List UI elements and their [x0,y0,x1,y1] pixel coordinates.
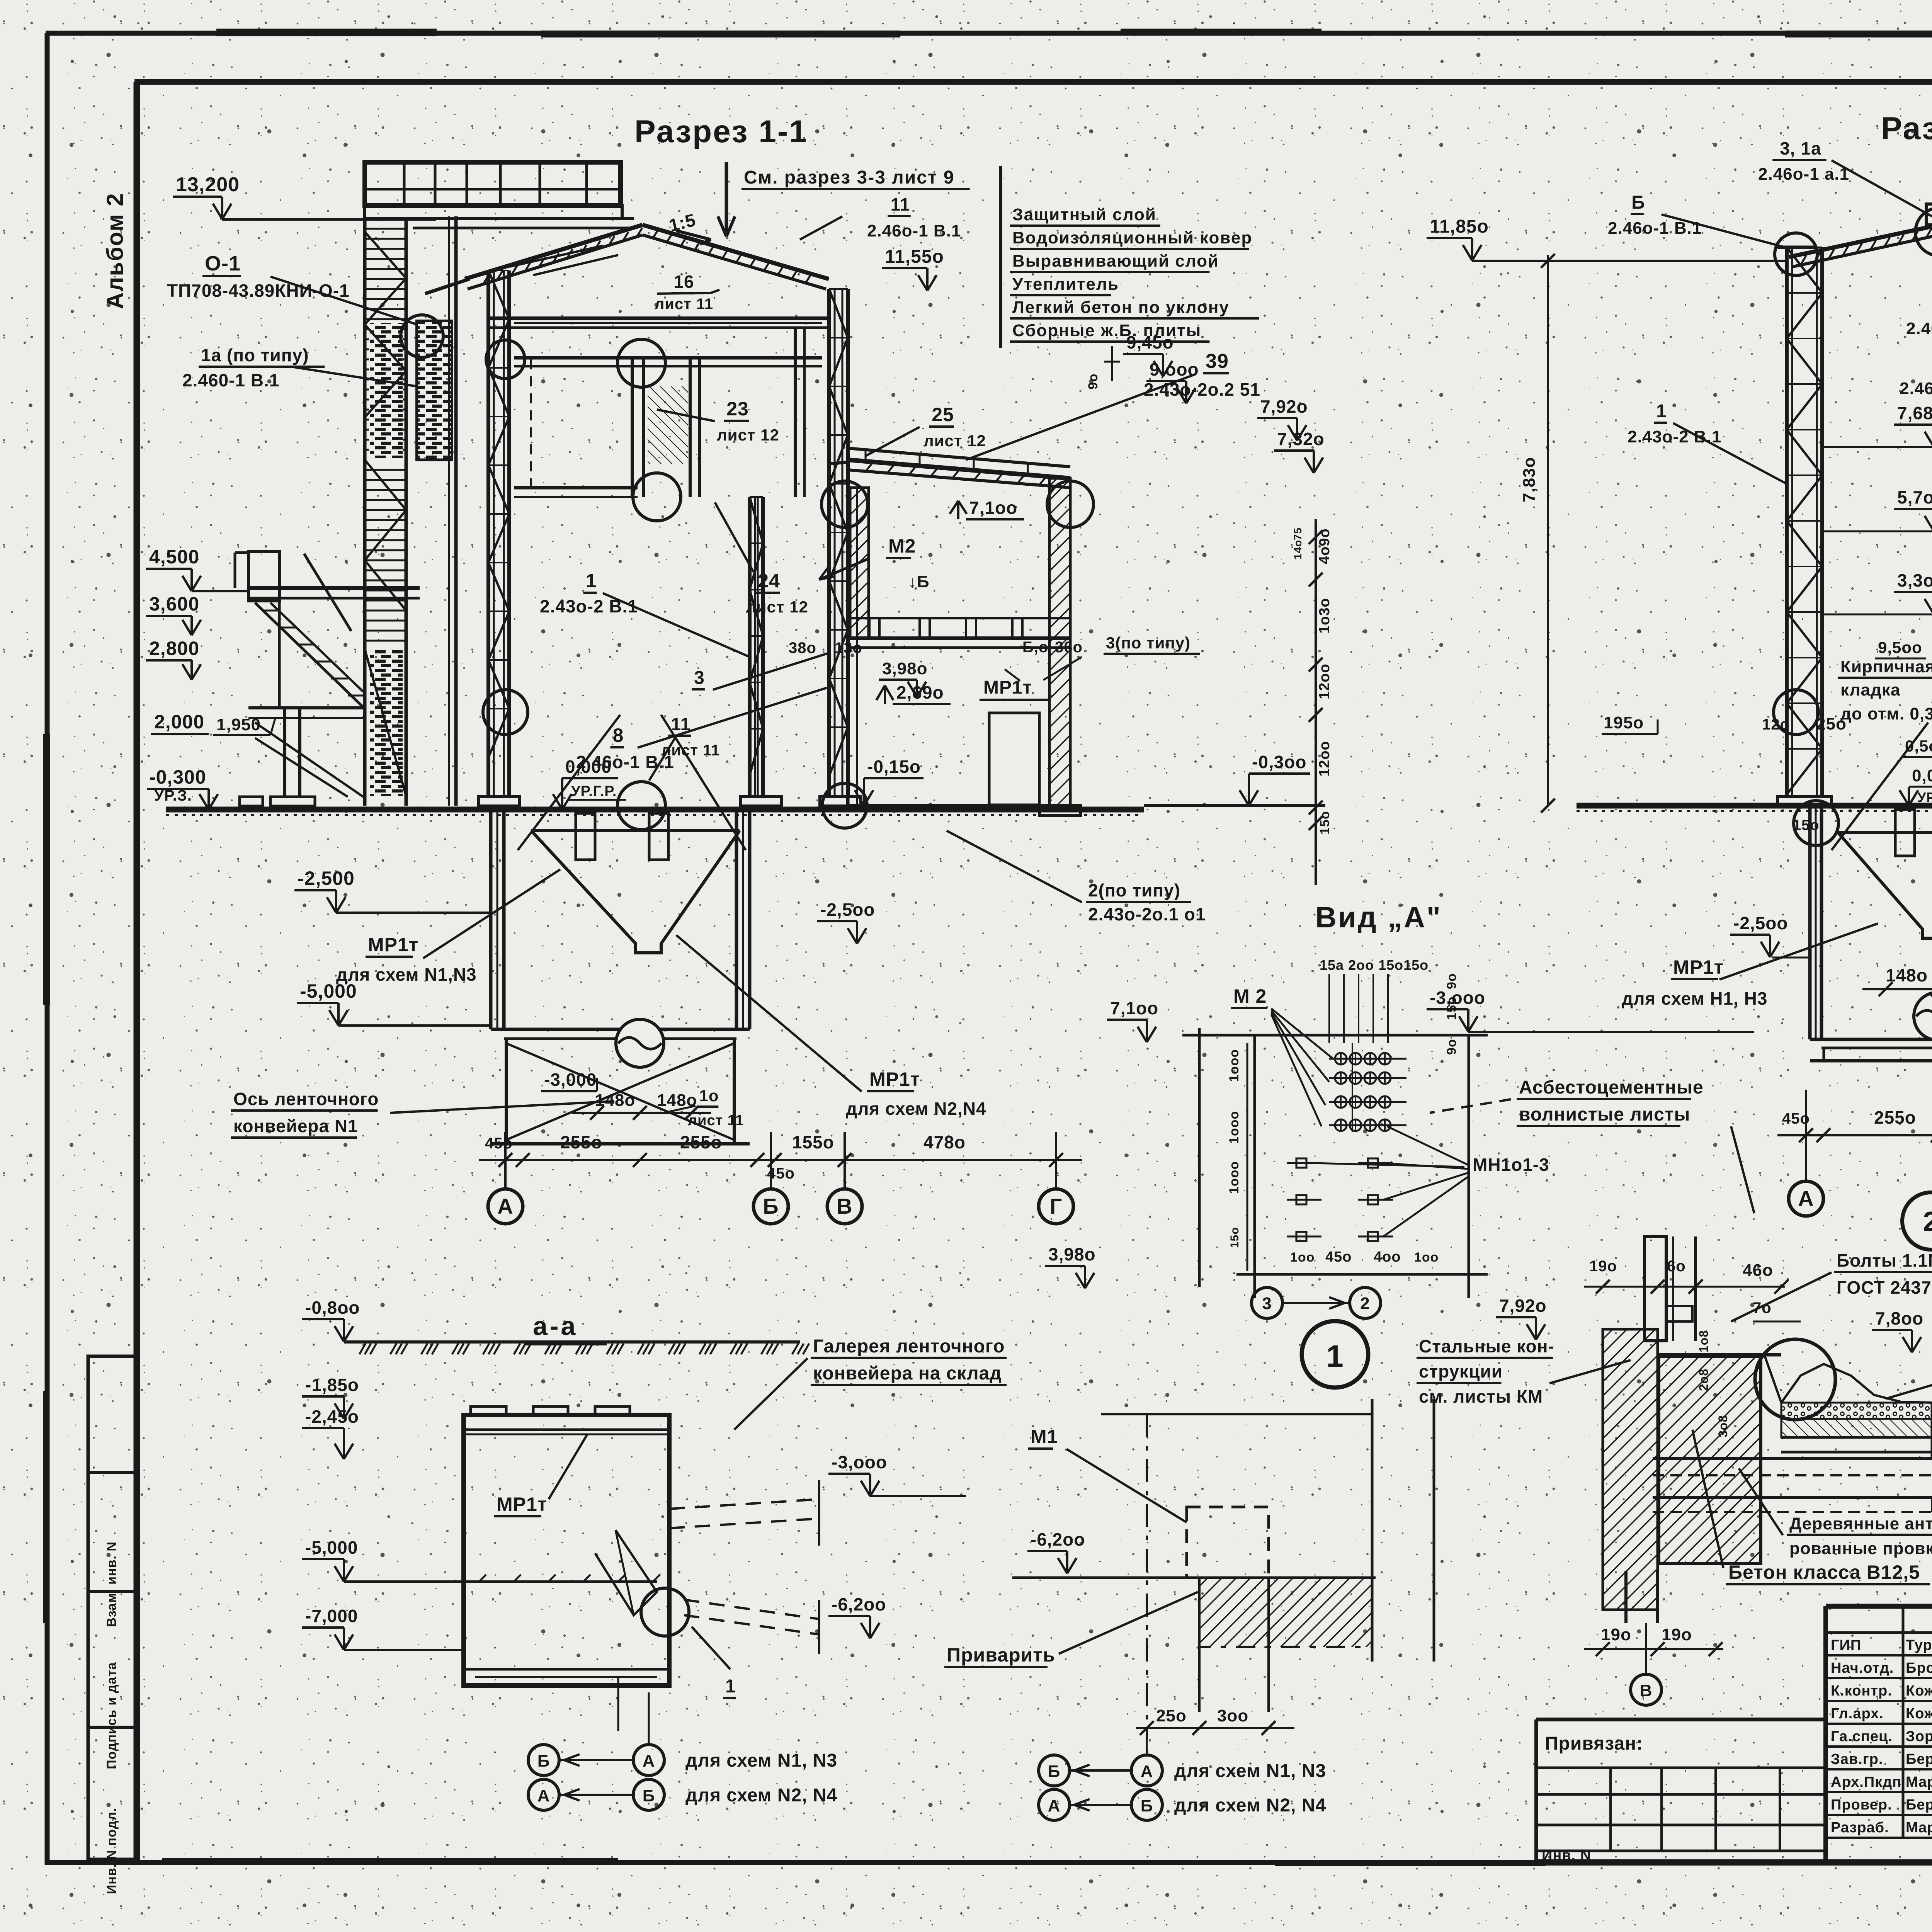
svg-text:К.контр.: К.контр. [1831,1683,1892,1699]
privyazan table left [1536,1733,1826,1864]
level 2,690 MR1t annex [876,669,1049,704]
svg-text:9,5оо: 9,5оо [1878,638,1922,656]
svg-text:478о: 478о [923,1132,966,1152]
svg-text:конвейера на склад: конвейера на склад [813,1363,1002,1384]
svg-text:для схем N1, N3: для схем N1, N3 [1174,1761,1326,1781]
svg-text:для схем N2,N4: для схем N2,N4 [846,1099,986,1119]
svg-text:13о: 13о [835,639,862,656]
svg-text:Деревянные антисепти-: Деревянные антисепти- [1789,1514,1932,1533]
stair tower left [365,219,406,806]
svg-text:39: 39 [1206,350,1229,372]
svg-text:Инв. N: Инв. N [1542,1847,1591,1864]
svg-text:Зав.гр.: Зав.гр. [1831,1751,1883,1767]
svg-text:7,83о: 7,83о [1520,457,1539,502]
svg-text:1: 1 [1656,401,1667,422]
callout M2 with arrow [819,535,930,591]
svg-text:2.46о-1 В.1: 2.46о-1 В.1 [1900,379,1932,398]
svg-text:-1,85о: -1,85о [305,1375,359,1395]
svg-text:3,3оо: 3,3оо [1897,570,1932,590]
level -3,000 right of view A [1427,988,1754,1032]
axes and dim row section 2 [1777,1090,1932,1216]
svg-text:7,68о: 7,68о [1897,403,1932,423]
svg-text:2: 2 [1360,1294,1370,1313]
svg-text:45о: 45о [767,1165,795,1182]
callout 2 po tipu lower right [947,831,1206,924]
svg-text:1: 1 [1326,1339,1344,1373]
svg-text:О-1: О-1 [205,252,241,275]
svg-text:-0,15о: -0,15о [867,757,921,777]
svg-text:1ооо: 1ооо [1227,1049,1242,1082]
level -2,500 pit right [817,900,875,944]
svg-text:-0,3оо: -0,3оо [1252,752,1306,772]
svg-text:Болты 1.1М12×3оо ВСТ3пс2: Болты 1.1М12×3оо ВСТ3пс2 [1837,1250,1932,1270]
ground line section 1 [166,810,1144,815]
callout 3 [692,653,829,690]
a-a right levels [828,1452,966,1638]
svg-text:М1: М1 [1031,1426,1058,1447]
steel structures label [1417,1336,1631,1406]
svg-text:Кожевников: Кожевников [1906,1706,1932,1722]
svg-text:А: А [1048,1796,1061,1815]
levels 7,680 5,700 3,300 inside hall [1822,403,1932,614]
callout 11 2.460-1 V.1 with 11,550 [800,194,961,291]
section 2-2 title [1881,111,1932,146]
svg-text:МР1т: МР1т [497,1493,547,1515]
svg-text:Приварить: Приварить [947,1644,1055,1666]
callout 39 right section1 [966,350,1260,460]
svg-text:2,800: 2,800 [149,638,199,659]
left lattice column section 2 [1777,247,1832,806]
roof layers list [1001,166,1259,348]
svg-text:лист 12: лист 12 [717,426,779,444]
level -3,000 and hopper dims 1480 1480 [541,1070,711,1120]
levels 7,920 7,320 right [1257,396,1325,473]
svg-text:2,000: 2,000 [154,711,204,733]
svg-text:Зорин: Зорин [1906,1728,1932,1745]
svg-text:Га.спец.: Га.спец. [1831,1728,1893,1745]
svg-text:2.460-1 В.1: 2.460-1 В.1 [182,370,279,390]
svg-text:Марголина: Марголина [1906,1774,1932,1790]
left elevation marks column section 1 [146,173,489,1026]
detail a-a title [526,1311,607,1344]
scheme direction symbols under a-a [528,1692,837,1810]
svg-text:-2,5оо: -2,5оо [820,900,875,920]
callout 8 2.460-1 V.1 [576,688,827,772]
svg-text:7,1оо: 7,1оо [1110,998,1158,1018]
svg-text:45о: 45о [1325,1249,1352,1265]
svg-text:Разрез 1-1: Разрез 1-1 [634,114,808,149]
callout 2 2.460-1 V.1 ridge [1906,240,1932,338]
svg-text:7,1оо: 7,1оо [969,498,1017,518]
node circles section 2 [1774,208,1932,845]
svg-text:Инв. N подл.: Инв. N подл. [104,1808,119,1894]
svg-text:УР.Г.Р.: УР.Г.Р. [571,783,617,799]
svg-text:11,55о: 11,55о [885,247,944,267]
svg-text:155о: 155о [792,1132,834,1152]
svg-text:См. разрез 3-3 лист 9: См. разрез 3-3 лист 9 [744,167,954,188]
svg-text:для схем N1,N3: для схем N1,N3 [336,964,477,985]
levels 9,450 9,000 right of hall [1086,332,1199,403]
svg-text:0,5оо: 0,5оо [1905,737,1932,755]
svg-text:Туринский: Туринский [1906,1637,1932,1653]
svg-text:2.46о-1 а.1: 2.46о-1 а.1 [1758,165,1849,184]
svg-text:-5,000: -5,000 [305,1537,358,1558]
callout 1a po tipu [182,345,417,390]
svg-text:конвейера N1: конвейера N1 [233,1116,358,1136]
svg-text:Взам. инв. N: Взам. инв. N [104,1541,119,1627]
foundation pit section 2 [1810,723,1932,1061]
svg-text:А: А [1798,1186,1814,1211]
svg-text:Б: Б [537,1752,550,1770]
svg-text:1ооо: 1ооо [1227,1161,1242,1194]
svg-text:2о8: 2о8 [1697,1369,1711,1391]
gallery to warehouse label [734,1336,1007,1430]
svg-text:19о: 19о [1662,1625,1692,1644]
svg-text:1: 1 [725,1676,736,1697]
svg-text:11: 11 [671,714,691,734]
callout 25 list 12 [866,404,986,456]
roof gable section 2 [1777,204,1932,280]
left stamp column [88,1356,138,1894]
svg-text:ГОСТ 24379.о-8о; 1-8о: ГОСТ 24379.о-8о; 1-8о [1837,1277,1932,1298]
svg-text:148о: 148о [595,1091,635,1110]
svg-text:1ооо: 1ооо [1227,1111,1242,1144]
svg-text:13,200: 13,200 [176,173,240,196]
svg-text:ТП708-43.89КНИ-О-1: ТП708-43.89КНИ-О-1 [167,281,350,301]
svg-text:3о8: 3о8 [1716,1415,1730,1437]
svg-text:16: 16 [673,272,694,292]
svg-text:Берлин: Берлин [1906,1797,1932,1813]
svg-text:лист 12: лист 12 [746,598,808,616]
a-a node 1 leader [618,1627,736,1731]
svg-text:7,92о: 7,92о [1260,396,1308,417]
view A detail [1045,901,1549,1318]
level 0,000 UR.G.R [553,757,626,810]
svg-text:Альбом 2: Альбом 2 [102,192,128,309]
hall left lattice column A [478,270,519,806]
svg-text:МР1т: МР1т [1673,956,1724,978]
svg-text:15о: 15о [1318,811,1332,835]
node circles section 1 [401,315,1094,830]
svg-text:МР1т: МР1т [368,934,418,956]
level -0,300 far right of section1 [1144,752,1325,806]
level -2,500 marks section 2 [1730,869,1932,957]
svg-text:Б: Б [1048,1762,1061,1781]
svg-text:255о: 255о [680,1132,722,1152]
svg-text:9о: 9о [1444,973,1459,989]
svg-text:38о: 38о [789,639,816,656]
left vertical dim 7,830 [1520,254,1555,813]
labels around pit section 2 [1602,657,1932,833]
svg-text:6о: 6о [1667,1258,1686,1275]
svg-text:Б: Б [1631,192,1645,213]
svg-text:3(по типу): 3(по типу) [1106,634,1190,652]
svg-text:Легкий бетон по уклону: Легкий бетон по уклону [1012,298,1230,317]
level -0,150 annex [855,757,923,806]
callout 1a 2.460-1 V.1 [1900,294,1932,398]
svg-text:45о: 45о [1782,1110,1810,1127]
svg-text:лист 11: лист 11 [655,296,713,313]
svg-text:Кирпичная я: Кирпичная я [1840,657,1932,676]
svg-text:7,92о: 7,92о [1499,1296,1547,1316]
level 11,850 left [1427,216,1785,261]
svg-text:1оо: 1оо [1290,1250,1315,1265]
svg-text:Б: Б [763,1194,779,1218]
svg-text:1: 1 [586,570,597,592]
svg-text:МР1т: МР1т [869,1068,920,1090]
svg-text:45о: 45о [485,1135,513,1152]
svg-text:Утеплитель: Утеплитель [1012,275,1119,294]
svg-text:1о8: 1о8 [1697,1330,1711,1352]
callout 24 list 12 [715,502,808,616]
svg-text:255о: 255о [560,1132,602,1152]
svg-text:-7,000: -7,000 [305,1606,358,1626]
svg-text:Привязан:: Привязан: [1545,1733,1643,1754]
annex right wall G (brick hatch) [1039,478,1080,816]
svg-text:В: В [837,1194,852,1218]
svg-text:Подпись и дата: Подпись и дата [104,1662,119,1769]
svg-text:МН1о1-3: МН1о1-3 [1473,1155,1549,1175]
callout 1 2.430-2 V.1 [540,570,750,657]
svg-text:2.46о-1 В.1: 2.46о-1 В.1 [1906,319,1932,338]
svg-text:Провер.: Провер. [1831,1797,1892,1813]
callout B 2.460-1 V.1 [1608,192,1785,247]
label MR1t for schemes N2 N4 [676,935,986,1119]
svg-text:3оо: 3оо [1217,1706,1248,1725]
callout 11 list 11 [649,714,720,781]
svg-text:4о9о: 4о9о [1316,528,1333,564]
svg-text:0,000: 0,000 [565,757,612,777]
dims 380 130 and 3,980 mid [789,634,1200,697]
svg-text:46о: 46о [1743,1261,1773,1280]
svg-text:А: А [497,1194,513,1218]
svg-text:-3,000: -3,000 [544,1070,597,1090]
svg-text:1о: 1о [699,1087,719,1105]
svg-text:-6,2оо: -6,2оо [832,1594,886,1614]
svg-text:3, 1а: 3, 1а [1780,138,1821,158]
svg-text:Асбестоцементные: Асбестоцементные [1519,1077,1704,1098]
callout O-1 [167,252,417,325]
svg-text:2.46о-1 В.1: 2.46о-1 В.1 [867,221,961,240]
svg-text:14о: 14о [1292,540,1304,560]
svg-text:15о: 15о [1793,817,1819,833]
svg-text:для схем N1, N3: для схем N1, N3 [685,1750,837,1771]
MR1t for schemes H1 H3 [1622,923,1878,1009]
svg-text:лист 11: лист 11 [688,1112,744,1129]
svg-text:↓Б: ↓Б [908,572,930,591]
svg-text:19о: 19о [1589,1258,1617,1275]
a-a tank structure [464,1406,819,1685]
svg-text:см. листы КМ: см. листы КМ [1419,1386,1543,1406]
svg-text:15а 2оо 15о15о: 15а 2оо 15о15о [1320,957,1429,973]
svg-text:рованные провки 6о×6о×8о: рованные провки 6о×6о×8о [1789,1539,1932,1558]
svg-text:Ось ленточного: Ось ленточного [233,1089,379,1109]
big detail circle 1 [1302,1321,1368,1388]
svg-text:УР.Г.Р.: УР.Г.Р. [1917,789,1932,805]
svg-text:7,8оо: 7,8оо [1875,1308,1923,1328]
a-a MR1t label [494,1434,587,1516]
svg-text:М2: М2 [888,535,916,557]
svg-text:2.43о-2о.2 51: 2.43о-2о.2 51 [1144,379,1260,400]
ground line section 2 [1577,806,1932,811]
section 1-1 title [634,114,808,149]
callout 1o list 11 pit [664,1087,744,1129]
signature table [1826,1606,1932,1862]
svg-text:Вид „А": Вид „А" [1315,901,1442,934]
svg-text:1оо: 1оо [1414,1250,1439,1265]
svg-text:75: 75 [1292,527,1304,540]
svg-text:Выравнивающий слой: Выравнивающий слой [1012,252,1219,270]
svg-text:195о: 195о [1604,713,1644,732]
svg-text:Гл.арх.: Гл.арх. [1831,1706,1884,1722]
svg-text:-2,45о: -2,45о [305,1406,359,1427]
svg-text:струкции: струкции [1419,1361,1503,1381]
svg-text:Б,о: Б,о [1022,639,1048,656]
hall right wall lattice column V [820,289,861,806]
svg-text:0,000: 0,000 [1912,766,1932,785]
svg-text:Б: Б [643,1786,655,1805]
svg-text:Разраб.: Разраб. [1831,1820,1889,1836]
hopper dims 1480 1480 section 2 [1862,965,1932,996]
svg-text:Марголина: Марголина [1906,1820,1932,1836]
svg-text:-2,5оо: -2,5оо [1733,913,1788,933]
svg-text:3: 3 [1262,1294,1272,1313]
callout 1 2.430-2 V.1 left [1628,401,1785,483]
svg-text:лист 12: лист 12 [923,432,986,450]
svg-text:3,98о: 3,98о [1048,1244,1096,1264]
level 7,920 left of node 2 [1496,1296,1547,1340]
svg-text:2,69о: 2,69о [896,682,944,702]
svg-text:-3,ооо: -3,ооо [1430,988,1485,1008]
svg-text:Водоизоляционный ковер: Водоизоляционный ковер [1012,228,1252,247]
svg-text:ГИП: ГИП [1831,1637,1861,1653]
svg-text:-3,ооо: -3,ооо [832,1452,887,1472]
svg-text:11,85о: 11,85о [1430,216,1489,237]
level 9,500 pit upper [1875,638,1926,658]
callout 23 list 12 [657,398,779,444]
svg-text:для схем N2, N4: для схем N2, N4 [685,1785,837,1806]
svg-text:Арх.Пкдп: Арх.Пкдп [1831,1774,1901,1790]
svg-text:-0,300: -0,300 [149,766,206,788]
svg-text:до отм. 0,360: до отм. 0,360 [1840,704,1932,723]
section mark см.разрез 3-3 line [718,162,970,236]
svg-text:25: 25 [932,404,954,425]
svg-text:Бродский: Бродский [1906,1660,1932,1676]
incline conveyor to annex [848,448,1070,476]
svg-text:8: 8 [613,724,624,746]
hall interior floors and shaft [514,323,822,806]
svg-text:3,600: 3,600 [149,593,199,615]
upper landing 4.500 and external stair [235,551,420,806]
annex mid floor 3.980 [848,618,1070,648]
svg-text:кладка: кладка [1840,680,1900,699]
svg-text:-0,8оо: -0,8оо [305,1298,360,1318]
axes and dim row section 1 [479,1132,1082,1224]
svg-text:1а (по типу): 1а (по типу) [201,345,309,365]
svg-text:2: 2 [1923,1206,1932,1237]
scheme direction symbols under M1 [1039,1739,1326,1820]
svg-text:Г: Г [1050,1194,1063,1218]
svg-text:9о: 9о [1086,373,1100,389]
hall left boundary wall [449,216,456,806]
conveyor gallery top-left [365,162,634,228]
svg-text:Кожевников: Кожевников [1906,1683,1932,1699]
asbestos sheets label [1430,1077,1754,1213]
svg-text:36о: 36о [1055,639,1083,656]
svg-text:Галерея ленточного: Галерея ленточного [813,1336,1005,1357]
svg-text:Бетон класса В12,5: Бетон класса В12,5 [1728,1561,1920,1583]
annex interior walls [848,478,1070,806]
svg-text:1о3о: 1о3о [1316,598,1333,634]
svg-text:12оо: 12оо [1316,741,1333,777]
svg-text:Берлин: Берлин [1906,1751,1932,1767]
svg-text:15о: 15о [1228,1227,1241,1248]
svg-text:5,7оо: 5,7оо [1897,487,1932,507]
svg-text:Нач.отд.: Нач.отд. [1831,1660,1894,1676]
svg-text:Разрез 2-2: Разрез 2-2 [1881,111,1932,146]
svg-text:9о: 9о [1444,1039,1459,1055]
svg-text:255о: 255о [1874,1107,1916,1128]
svg-text:Б: Б [1141,1796,1153,1815]
svg-text:25о: 25о [1156,1706,1187,1725]
title block main frame [1536,1606,1932,1862]
annex B-G roof slab [831,460,1070,488]
svg-text:4,500: 4,500 [149,546,199,568]
album label [102,192,128,309]
svg-text:2.43о-2о.1 о1: 2.43о-2о.1 о1 [1088,904,1206,924]
svg-text:А: А [643,1752,655,1770]
a-a ground line with hatch [302,1298,809,1354]
svg-text:19о: 19о [1601,1625,1631,1644]
svg-text:3,98о: 3,98о [882,659,928,678]
svg-text:2.43о-2 В.1: 2.43о-2 В.1 [1628,427,1721,446]
svg-text:А: А [1141,1762,1153,1781]
svg-text:Защитный слой: Защитный слой [1012,205,1156,224]
level 7,100 annex [950,498,1024,519]
svg-text:а-а: а-а [533,1311,578,1341]
svg-text:1,950: 1,950 [216,715,261,734]
node 2 detail [1584,1192,1932,1705]
hall ceiling beams [488,318,827,328]
svg-text:9,45о: 9,45о [1126,332,1174,352]
svg-text:-2,500: -2,500 [298,867,355,889]
svg-text:2(по типу): 2(по типу) [1088,880,1180,900]
label axis of belt conveyor N1 [231,1089,614,1138]
chute O-1 dashed shaft [417,321,452,460]
svg-text:волнистые листы: волнистые листы [1519,1104,1690,1125]
svg-text:12оо: 12оо [1316,663,1333,699]
svg-text:МР1т: МР1т [983,677,1032,698]
svg-text:24: 24 [758,570,780,592]
label MR1t for schemes N1 N3 left [336,869,560,985]
roof gable section 1 [425,209,829,313]
callout 3,1a 2.460-1 a.1 [1758,138,1932,216]
svg-text:3: 3 [694,668,705,688]
svg-text:11: 11 [891,194,910,214]
svg-text:-6,2оо: -6,2оо [1031,1529,1085,1549]
svg-text:для схем Н1, Н3: для схем Н1, Н3 [1622,988,1767,1009]
detail M1 plan [944,1399,1434,1739]
right vertical dim chain section 1 [1292,519,1333,885]
svg-text:М 2: М 2 [1233,985,1267,1007]
svg-text:для схем N2, N4: для схем N2, N4 [1174,1795,1326,1816]
svg-text:4оо: 4оо [1374,1249,1401,1265]
svg-text:В: В [1640,1681,1653,1700]
a-a levels left [302,1375,464,1650]
svg-text:А: А [537,1786,550,1805]
svg-text:Стальные кон-: Стальные кон- [1419,1336,1554,1356]
svg-text:7,32о: 7,32о [1277,429,1325,449]
